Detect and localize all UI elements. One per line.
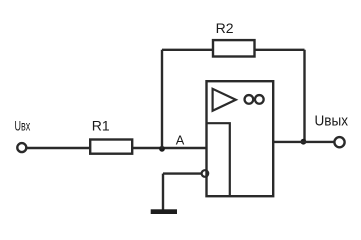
svg-text:R2: R2 [216, 20, 234, 36]
op-amp triangle symbol [213, 89, 236, 111]
wire feedback vertical right [303, 50, 305, 142]
wire node A to op-amp input [162, 147, 207, 149]
terminal Uvyh (output) [334, 137, 344, 147]
node A junction [159, 146, 165, 152]
resistor R1 [90, 140, 132, 154]
svg-text:Uвых: Uвых [315, 113, 349, 130]
node output junction [301, 139, 307, 145]
wire op-amp output [273, 141, 334, 143]
wire R2 to right corner [255, 49, 305, 51]
op-amp U1 body [207, 81, 274, 196]
op-amp infinity symbol left circle [245, 95, 254, 104]
svg-text:A: A [176, 133, 185, 148]
op-amp inverting input bubble [202, 170, 209, 177]
resistor R2 [213, 40, 255, 56]
wire feedback top to R2 [162, 49, 213, 51]
op-amp infinity symbol right circle [255, 95, 264, 104]
wire R1 to node A [132, 147, 162, 149]
ground symbol [151, 209, 177, 214]
svg-text:R1: R1 [92, 118, 110, 134]
terminal Uvx (input) [17, 143, 26, 152]
svg-text:Uвх: Uвх [15, 118, 31, 134]
wire feedback vertical left [161, 50, 163, 149]
op-amp inner input panel [207, 123, 230, 196]
wire ground to bubble [163, 172, 202, 174]
wire ground vertical [162, 174, 164, 210]
wire input to R1 [26, 147, 90, 149]
